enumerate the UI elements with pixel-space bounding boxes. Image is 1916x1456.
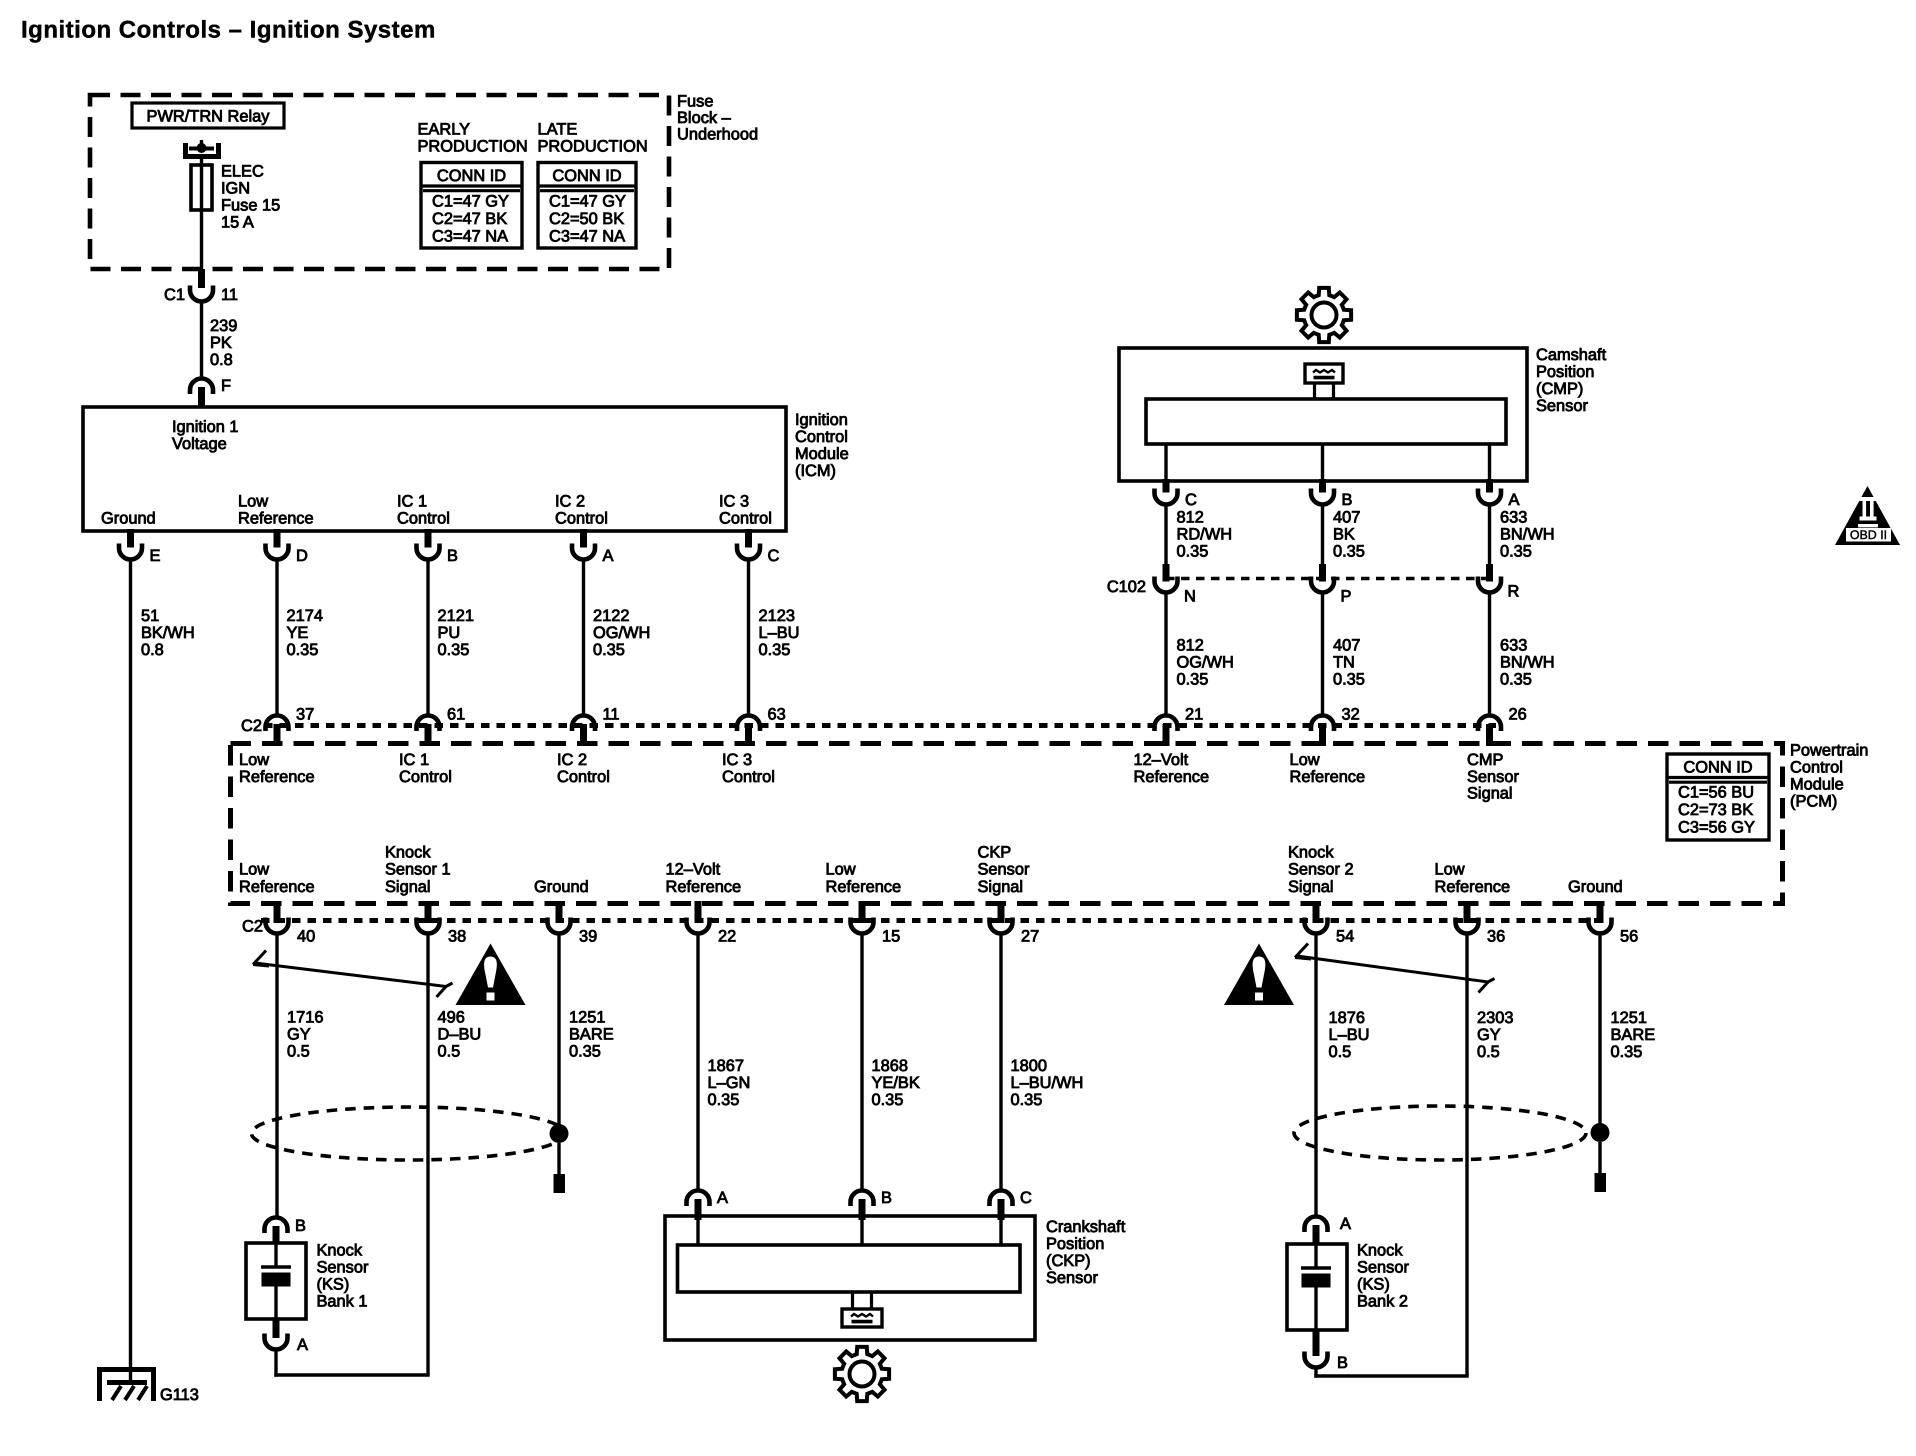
- CMP pin B connector: [1311, 489, 1334, 505]
- warning triangle 2: [1224, 944, 1294, 1006]
- svg-text:LATE: LATE: [538, 121, 578, 139]
- svg-text:Low: Low: [1290, 751, 1320, 769]
- svg-text:PWR/TRN Relay: PWR/TRN Relay: [147, 108, 271, 126]
- C102 pin P connector: [1311, 577, 1334, 593]
- svg-text:C: C: [1185, 491, 1197, 509]
- svg-text:A: A: [603, 547, 614, 565]
- svg-text:Reference: Reference: [1290, 768, 1366, 786]
- shield termination left: [554, 1174, 566, 1193]
- svg-text:0.8: 0.8: [210, 351, 233, 369]
- svg-text:633: 633: [1500, 509, 1527, 527]
- PCM top pin 32 stub: [1319, 724, 1326, 746]
- svg-text:2122: 2122: [593, 607, 629, 625]
- svg-text:IC 2: IC 2: [555, 493, 585, 511]
- PCM top pin 37 stub: [274, 724, 281, 746]
- svg-text:496: 496: [438, 1009, 465, 1027]
- wire 1868 YE/BK 0.35: [860, 934, 863, 1192]
- svg-text:Ignition 1: Ignition 1: [172, 418, 239, 436]
- CONN ID table late production: [538, 163, 636, 249]
- shield drain wire left: [557, 1143, 560, 1175]
- svg-text:Reference: Reference: [239, 878, 315, 896]
- svg-text:C3=56 GY: C3=56 GY: [1678, 818, 1755, 836]
- PCM bottom pin 22 stub: [695, 901, 702, 923]
- CMP pin C stub: [1163, 479, 1170, 493]
- svg-text:Low: Low: [239, 861, 269, 879]
- PCM bottom pin 36 stub: [1464, 901, 1471, 923]
- svg-text:Sensor 2: Sensor 2: [1288, 861, 1354, 879]
- wire 2123 L-BU 0.35: [747, 560, 750, 717]
- svg-text:Sensor: Sensor: [1357, 1259, 1409, 1277]
- svg-text:B: B: [1337, 1354, 1348, 1372]
- svg-text:Reference: Reference: [1435, 878, 1511, 896]
- svg-text:CKP: CKP: [978, 843, 1012, 861]
- svg-text:Bank 1: Bank 1: [317, 1293, 368, 1311]
- wire relay to C1: [200, 157, 203, 270]
- svg-text:1251: 1251: [569, 1009, 605, 1027]
- svg-text:B: B: [447, 547, 458, 565]
- svg-text:0.35: 0.35: [872, 1091, 904, 1109]
- svg-text:Module: Module: [1790, 776, 1844, 794]
- svg-text:407: 407: [1333, 509, 1360, 527]
- KS2 pin B wire: [1314, 1368, 1317, 1378]
- svg-text:21: 21: [1185, 706, 1203, 724]
- svg-text:Sensor: Sensor: [1536, 397, 1588, 415]
- svg-text:Control: Control: [397, 510, 450, 528]
- ICM pin C stub: [745, 529, 752, 548]
- svg-text:Control: Control: [1790, 759, 1843, 777]
- svg-text:0.35: 0.35: [1011, 1091, 1043, 1109]
- svg-text:BN/WH: BN/WH: [1500, 654, 1555, 672]
- svg-text:0.35: 0.35: [708, 1091, 740, 1109]
- svg-text:Fuse 15: Fuse 15: [221, 197, 280, 215]
- PCM top pin 61 stub: [425, 724, 432, 746]
- svg-text:C1=47 GY: C1=47 GY: [549, 193, 626, 211]
- svg-text:B: B: [295, 1217, 306, 1235]
- svg-text:N: N: [1184, 588, 1196, 606]
- svg-text:37: 37: [296, 706, 314, 724]
- svg-text:L–BU: L–BU: [759, 624, 800, 642]
- fuse block underhood dashed box: [90, 95, 669, 269]
- ICM pin B connector: [417, 544, 440, 560]
- svg-text:G113: G113: [160, 1386, 199, 1404]
- KS2 bottom return wire: [1314, 1374, 1468, 1377]
- KS1 pin A wire: [274, 1350, 277, 1377]
- svg-text:40: 40: [297, 928, 315, 946]
- svg-text:0.35: 0.35: [1611, 1043, 1643, 1061]
- svg-text:812: 812: [1177, 637, 1204, 655]
- svg-text:(PCM): (PCM): [1790, 793, 1837, 811]
- PCM top pin 63 connector: [737, 716, 760, 732]
- CMP pin C connector: [1155, 489, 1178, 505]
- svg-text:(CMP): (CMP): [1536, 380, 1583, 398]
- svg-text:Knock: Knock: [1357, 1242, 1403, 1260]
- ICM pin E stub: [127, 529, 134, 548]
- wire 1876 L-BU 0.5: [1314, 934, 1317, 1219]
- svg-text:Reference: Reference: [826, 878, 902, 896]
- svg-text:0.8: 0.8: [141, 641, 164, 659]
- CKP sensor connector tab: [842, 1309, 882, 1327]
- svg-text:26: 26: [1509, 706, 1527, 724]
- CMP connector stem: [1313, 383, 1316, 399]
- connector F arch: [190, 379, 213, 395]
- PCM bottom pin 38 connector: [417, 918, 440, 934]
- ground symbol G113: [100, 1370, 154, 1402]
- svg-text:Signal: Signal: [385, 878, 431, 896]
- svg-text:PRODUCTION: PRODUCTION: [538, 138, 648, 156]
- CMP gear icon: [1297, 288, 1351, 342]
- svg-text:YE: YE: [287, 624, 309, 642]
- svg-text:0.35: 0.35: [1177, 543, 1209, 561]
- svg-text:Ignition: Ignition: [795, 411, 848, 429]
- svg-text:D–BU: D–BU: [438, 1026, 482, 1044]
- C102 pin N connector: [1155, 577, 1178, 593]
- svg-text:(KS): (KS): [1357, 1276, 1390, 1294]
- svg-text:Low: Low: [238, 493, 268, 511]
- PCM top pin 11 stub: [580, 724, 587, 746]
- svg-text:Signal: Signal: [978, 878, 1024, 896]
- PCM bottom pin 36 connector: [1456, 918, 1479, 934]
- svg-text:E: E: [150, 547, 161, 565]
- KS1 pin A connector: [265, 1334, 288, 1350]
- PCM top pin 37 connector: [266, 716, 289, 732]
- svg-text:1800: 1800: [1011, 1057, 1047, 1075]
- wire 1800 L-BU/WH 0.35: [999, 934, 1002, 1192]
- shield ellipse left: [252, 1107, 566, 1160]
- svg-text:Control: Control: [399, 768, 452, 786]
- svg-text:15 A: 15 A: [221, 214, 254, 232]
- svg-text:IC 1: IC 1: [397, 493, 427, 511]
- svg-text:Position: Position: [1046, 1235, 1104, 1253]
- svg-text:L–BU: L–BU: [1329, 1026, 1370, 1044]
- svg-text:Reference: Reference: [666, 878, 742, 896]
- svg-text:Low: Low: [826, 861, 856, 879]
- KS1 bottom return wire: [274, 1373, 429, 1376]
- PCM top pin 11 connector: [572, 716, 595, 732]
- knock sensor KS bank1 box: [246, 1243, 306, 1319]
- svg-text:EARLY: EARLY: [418, 121, 471, 139]
- svg-text:L–BU/WH: L–BU/WH: [1011, 1074, 1084, 1092]
- svg-text:2123: 2123: [759, 607, 795, 625]
- svg-text:Control: Control: [795, 428, 848, 446]
- svg-text:12–Volt: 12–Volt: [1134, 751, 1189, 769]
- svg-text:BARE: BARE: [1611, 1026, 1656, 1044]
- CMP sensor outer box: [1119, 348, 1527, 481]
- wire 239 PK: [200, 302, 203, 380]
- PCM top pin 21 stub: [1163, 724, 1170, 746]
- ICM pin A connector: [572, 544, 595, 560]
- svg-text:38: 38: [448, 928, 466, 946]
- ICM pin D stub: [274, 529, 281, 548]
- svg-text:63: 63: [768, 706, 786, 724]
- svg-text:Ground: Ground: [534, 878, 589, 896]
- svg-text:15: 15: [882, 928, 900, 946]
- svg-text:Reference: Reference: [1134, 768, 1210, 786]
- shield ellipse right: [1294, 1106, 1586, 1160]
- svg-text:22: 22: [718, 928, 736, 946]
- C102 pin R stub: [1486, 564, 1493, 582]
- svg-text:Ground: Ground: [1568, 878, 1623, 896]
- svg-text:B: B: [881, 1189, 892, 1207]
- svg-text:51: 51: [141, 607, 159, 625]
- CONN ID table early production: [421, 163, 522, 249]
- warning triangle 1: [456, 944, 526, 1006]
- svg-text:0.5: 0.5: [1329, 1043, 1352, 1061]
- CMP wire inside box pin A: [1488, 444, 1491, 481]
- svg-text:0.35: 0.35: [759, 641, 791, 659]
- svg-text:Signal: Signal: [1467, 785, 1513, 803]
- svg-text:(CKP): (CKP): [1046, 1252, 1091, 1270]
- svg-text:Fuse: Fuse: [677, 93, 713, 111]
- svg-text:GY: GY: [1477, 1026, 1501, 1044]
- svg-text:PU: PU: [438, 624, 461, 642]
- svg-text:IC 3: IC 3: [722, 751, 752, 769]
- PCM C2 dotted connector line bottom: [261, 918, 1613, 923]
- C102 pin P stub: [1319, 564, 1326, 582]
- ICM pin A stub: [580, 529, 587, 548]
- svg-text:C2=50 BK: C2=50 BK: [549, 210, 624, 228]
- CKP wire inside pin A: [696, 1218, 699, 1246]
- svg-text:Control: Control: [722, 768, 775, 786]
- wire 1251 BARE 0.35 right: [1598, 934, 1601, 1130]
- svg-text:BK: BK: [1333, 526, 1355, 544]
- CKP sensor outer box: [665, 1216, 1035, 1340]
- PCM dashed box: [231, 744, 1783, 904]
- svg-text:Control: Control: [719, 510, 772, 528]
- CMP wire inside box pin B: [1321, 444, 1324, 481]
- PCM bottom pin 39 connector: [548, 918, 571, 934]
- svg-text:1867: 1867: [708, 1057, 744, 1075]
- PCM bottom pin 56 connector: [1589, 918, 1612, 934]
- svg-text:812: 812: [1177, 509, 1204, 527]
- CKP pin C stub: [998, 1199, 1005, 1220]
- svg-text:Knock: Knock: [1288, 843, 1334, 861]
- svg-text:2303: 2303: [1477, 1009, 1513, 1027]
- svg-text:P: P: [1341, 588, 1352, 606]
- arrow to pin 40: [255, 963, 453, 987]
- svg-text:PRODUCTION: PRODUCTION: [418, 138, 528, 156]
- svg-text:IGN: IGN: [221, 180, 250, 198]
- svg-text:OBD II: OBD II: [1850, 528, 1887, 542]
- C102 pin N stub: [1163, 564, 1170, 582]
- wire 2303 GY 0.5: [1465, 934, 1468, 1377]
- svg-text:56: 56: [1620, 928, 1638, 946]
- svg-text:0.35: 0.35: [287, 641, 319, 659]
- svg-text:2121: 2121: [438, 607, 474, 625]
- wire 1716 GY 0.5: [275, 934, 278, 1219]
- PCM bottom pin 54 stub: [1313, 901, 1320, 923]
- wire 2121 PU 0.35: [426, 560, 429, 717]
- svg-text:TN: TN: [1333, 654, 1355, 672]
- svg-text:12–Volt: 12–Volt: [666, 861, 721, 879]
- svg-text:Low: Low: [239, 751, 269, 769]
- ICM pin D connector: [266, 544, 289, 560]
- svg-text:C2: C2: [241, 717, 262, 735]
- svg-text:Control: Control: [555, 510, 608, 528]
- svg-text:C1=56 BU: C1=56 BU: [1678, 784, 1754, 802]
- CKP wire inside pin B: [860, 1218, 863, 1246]
- svg-text:0.35: 0.35: [1500, 543, 1532, 561]
- KS2 pin A stub: [1313, 1225, 1320, 1245]
- PCM bottom pin 54 connector: [1305, 918, 1328, 934]
- svg-text:Ground: Ground: [101, 510, 156, 528]
- shield drain dot left: [550, 1124, 569, 1143]
- svg-text:C1=47 GY: C1=47 GY: [432, 193, 509, 211]
- svg-text:A: A: [297, 1336, 308, 1354]
- PCM top pin 61 connector: [417, 716, 440, 732]
- svg-text:2174: 2174: [287, 607, 323, 625]
- svg-text:0.35: 0.35: [593, 641, 625, 659]
- C102 dashed connector line: [1166, 577, 1490, 580]
- PCM bottom pin 40 stub: [274, 901, 281, 923]
- svg-text:Sensor 1: Sensor 1: [385, 861, 451, 879]
- wire 2122 OG/WH 0.35: [582, 560, 585, 717]
- svg-text:C102: C102: [1107, 578, 1146, 596]
- CKP pin A stub: [695, 1199, 702, 1220]
- svg-text:IC 2: IC 2: [557, 751, 587, 769]
- svg-text:OG/WH: OG/WH: [593, 624, 650, 642]
- svg-text:CMP: CMP: [1467, 751, 1503, 769]
- PWR/TRN Relay label box: [132, 103, 284, 128]
- ICM pin E connector: [119, 544, 142, 560]
- ICM pin C connector: [737, 544, 760, 560]
- PCM bottom pin 39 stub: [556, 901, 563, 923]
- PCM bottom pin 38 stub: [425, 901, 432, 923]
- PCM CONN ID table: [1667, 754, 1769, 840]
- svg-text:F: F: [221, 377, 231, 395]
- svg-text:54: 54: [1336, 928, 1354, 946]
- CKP pin B connector: [851, 1191, 874, 1207]
- KS1 pin B stub: [273, 1226, 280, 1244]
- svg-text:407: 407: [1333, 637, 1360, 655]
- CMP pin B stub: [1319, 479, 1326, 493]
- svg-text:PK: PK: [210, 334, 232, 352]
- svg-text:Sensor: Sensor: [1467, 768, 1519, 786]
- svg-text:0.35: 0.35: [1333, 543, 1365, 561]
- CKP pin A connector: [687, 1191, 710, 1207]
- arrow to pin 54: [1297, 956, 1495, 982]
- svg-text:Voltage: Voltage: [172, 435, 227, 453]
- connector F stub: [198, 387, 205, 407]
- svg-text:36: 36: [1487, 928, 1505, 946]
- svg-text:Crankshaft: Crankshaft: [1046, 1218, 1126, 1236]
- svg-text:C1: C1: [164, 286, 185, 304]
- svg-text:Control: Control: [557, 768, 610, 786]
- svg-text:Signal: Signal: [1288, 878, 1334, 896]
- svg-text:1876: 1876: [1329, 1009, 1365, 1027]
- fuse ELEC IGN Fuse 15: [191, 165, 212, 210]
- svg-text:ELEC: ELEC: [221, 163, 264, 181]
- svg-text:B: B: [1342, 491, 1353, 509]
- CMP sensor connector tab: [1305, 364, 1343, 383]
- svg-text:Knock: Knock: [385, 843, 431, 861]
- svg-text:(KS): (KS): [317, 1276, 350, 1294]
- svg-text:0.35: 0.35: [569, 1043, 601, 1061]
- svg-text:27: 27: [1021, 928, 1039, 946]
- PCM bottom pin 40 connector: [266, 918, 289, 934]
- svg-text:Powertrain: Powertrain: [1790, 742, 1868, 760]
- KS1 piezo element: [274, 1243, 277, 1266]
- KS2 pin B stub: [1313, 1330, 1320, 1356]
- shield drain dot right: [1591, 1123, 1610, 1142]
- svg-text:R: R: [1508, 583, 1520, 601]
- svg-text:Low: Low: [1435, 861, 1465, 879]
- svg-text:1868: 1868: [872, 1057, 908, 1075]
- svg-text:0.35: 0.35: [1333, 671, 1365, 689]
- svg-text:Block –: Block –: [677, 109, 732, 127]
- wire 812 OG/WH 0.35 to PCM: [1164, 593, 1167, 717]
- svg-text:0.35: 0.35: [1177, 671, 1209, 689]
- ICM pin B stub: [425, 529, 432, 548]
- wire 407 BK 0.35: [1321, 505, 1324, 567]
- svg-text:GY: GY: [287, 1026, 311, 1044]
- svg-text:C2=47 BK: C2=47 BK: [432, 210, 507, 228]
- wire 51 BK/WH 0.8: [129, 560, 132, 1385]
- svg-text:BARE: BARE: [569, 1026, 614, 1044]
- svg-text:0.35: 0.35: [1500, 671, 1532, 689]
- svg-text:Reference: Reference: [239, 768, 315, 786]
- svg-text:C3=47 NA: C3=47 NA: [549, 227, 625, 245]
- KS2 pin B connector: [1305, 1352, 1328, 1368]
- svg-text:239: 239: [210, 317, 237, 335]
- svg-text:1716: 1716: [287, 1009, 323, 1027]
- KS2 pin A connector: [1305, 1217, 1328, 1233]
- C102 pin R connector: [1478, 577, 1501, 593]
- OBD II symbol: [1835, 486, 1900, 545]
- svg-text:Sensor: Sensor: [1046, 1269, 1098, 1287]
- svg-text:Sensor: Sensor: [978, 861, 1030, 879]
- svg-text:0.5: 0.5: [438, 1043, 461, 1061]
- svg-text:Ignition Controls – Ignition S: Ignition Controls – Ignition System: [21, 17, 436, 44]
- svg-text:A: A: [1340, 1215, 1351, 1233]
- svg-text:1251: 1251: [1611, 1009, 1647, 1027]
- knock sensor KS bank2 box: [1287, 1244, 1347, 1330]
- svg-text:L–GN: L–GN: [708, 1074, 751, 1092]
- KS2 piezo element: [1314, 1244, 1317, 1267]
- CKP sensor inner box: [678, 1245, 1021, 1292]
- svg-text:Knock: Knock: [317, 1242, 363, 1260]
- wire 2174 YE 0.35: [275, 560, 278, 717]
- PCM bottom pin 22 connector: [687, 918, 710, 934]
- CKP pin C connector: [990, 1191, 1013, 1207]
- svg-text:Sensor: Sensor: [317, 1259, 369, 1277]
- svg-text:IC 1: IC 1: [399, 751, 429, 769]
- svg-text:CONN ID: CONN ID: [1683, 759, 1752, 777]
- svg-text:C2: C2: [242, 918, 263, 936]
- PCM top pin 26 connector: [1478, 716, 1501, 732]
- CKP connector stem: [851, 1292, 854, 1309]
- svg-text:A: A: [717, 1189, 728, 1207]
- svg-text:C: C: [1020, 1189, 1032, 1207]
- PCM bottom pin 56 stub: [1597, 901, 1604, 923]
- PCM bottom pin 15 stub: [859, 901, 866, 923]
- svg-text:11: 11: [603, 706, 620, 724]
- PCM top pin 26 stub: [1486, 724, 1493, 746]
- CMP wire inside box pin C: [1164, 444, 1167, 481]
- shield drain wire right: [1598, 1142, 1601, 1174]
- shield termination right: [1595, 1173, 1607, 1192]
- svg-text:61: 61: [447, 706, 465, 724]
- connector C1 pin 11: [190, 286, 213, 302]
- wire 496 D-BU 0.5: [426, 934, 429, 1376]
- svg-text:0.35: 0.35: [438, 641, 470, 659]
- CMP pin A connector: [1478, 489, 1501, 505]
- CKP pin B stub: [859, 1199, 866, 1220]
- svg-text:C2=73 BK: C2=73 BK: [1678, 801, 1753, 819]
- svg-text:0.5: 0.5: [1477, 1043, 1500, 1061]
- relay contact symbol: [186, 143, 219, 157]
- svg-text:C3=47 NA: C3=47 NA: [432, 227, 508, 245]
- wire 812 RD/WH 0.35: [1164, 505, 1167, 567]
